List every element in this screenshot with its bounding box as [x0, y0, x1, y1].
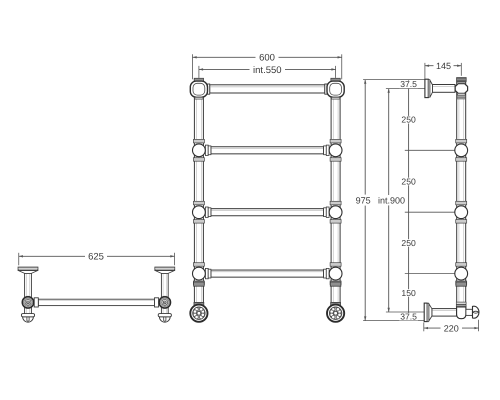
dimension 145 label	[434, 61, 454, 71]
side top wall flange	[425, 79, 433, 97]
dimension 600 line	[193, 56, 342, 58]
svg-text:37.5: 37.5	[400, 79, 417, 89]
plan right post	[161, 273, 168, 314]
side chain dimension line	[408, 80, 410, 321]
top-right corner joint cap	[331, 78, 340, 81]
chain label 250 b	[401, 178, 416, 186]
svg-text:250: 250	[401, 177, 416, 187]
dimension 145 line	[425, 65, 461, 67]
right valve handwheel	[327, 305, 344, 322]
dimension 600 extension lines	[193, 54, 342, 79]
rail 3 tube	[211, 209, 324, 216]
side post ball joint 2	[455, 201, 468, 223]
rail 4 tube	[211, 270, 324, 277]
band below top-right joint	[332, 97, 340, 99]
side post ball joint 3	[455, 263, 468, 285]
side chain tick rail3	[405, 211, 455, 213]
plan rail left collar	[34, 298, 38, 307]
side bottom wall flange	[424, 303, 432, 322]
dimension int.550 extension lines	[199, 66, 336, 78]
side chain tick rail4	[405, 273, 455, 275]
dimension int.550 label	[250, 64, 286, 75]
side chain tick 37.5 lower	[386, 88, 434, 90]
side collar below top ball	[457, 93, 466, 98]
left post ball joint rail4	[193, 263, 206, 285]
rail 3 right collar	[324, 207, 329, 217]
svg-text:int.550: int.550	[253, 65, 282, 76]
chain label 37.5 bottom	[399, 313, 418, 321]
chain label 150	[401, 289, 416, 297]
side post	[457, 82, 466, 306]
left valve handwheel	[190, 305, 207, 322]
side post lower dark band	[456, 282, 467, 286]
rail 2 left collar	[205, 145, 211, 155]
plan left foot	[21, 314, 34, 323]
svg-text:145: 145	[436, 61, 451, 71]
svg-text:150: 150	[401, 288, 416, 298]
plan right foot	[158, 314, 171, 323]
side valve stem stub	[466, 309, 473, 315]
side top finial cap	[457, 78, 467, 82]
dimension int.900 label	[378, 195, 406, 205]
right post ball joint rail4	[329, 263, 342, 285]
dimension int.550 line	[199, 68, 336, 70]
dimension 625 label	[85, 251, 107, 261]
side top ball	[455, 84, 467, 94]
plan left post	[25, 273, 32, 314]
dimension 625 line	[19, 255, 175, 257]
side bottom elbow	[457, 307, 466, 319]
svg-text:220: 220	[444, 323, 459, 333]
dimension 975 line	[364, 80, 366, 321]
left post ball joint rail2	[193, 139, 206, 161]
svg-text:250: 250	[401, 115, 416, 125]
rail 4 left collar	[205, 268, 211, 278]
left post wheel collar band	[194, 302, 204, 305]
chain label 250 c	[401, 239, 416, 247]
side chain tick 150 lower	[386, 311, 434, 313]
right post ball joint rail2	[329, 139, 342, 161]
chain label 250 a	[401, 116, 416, 124]
right post ball joint rail3	[329, 201, 342, 223]
rail 4 right collar	[324, 268, 329, 278]
top rail tube	[210, 85, 325, 93]
top-right corner joint octagon	[327, 81, 344, 97]
rail 2 tube	[211, 147, 324, 154]
plan left wall flange	[18, 267, 38, 273]
chain label 37.5 top	[399, 81, 418, 89]
right post wheel collar band	[331, 302, 341, 305]
side bottom collar bands	[456, 302, 466, 307]
dimension 220 label	[441, 323, 463, 333]
left post lower dark band	[194, 282, 205, 286]
top rail right collar ring	[325, 84, 327, 94]
svg-text:250: 250	[401, 238, 416, 248]
dimension 625 extension lines	[19, 253, 175, 265]
rail 2 right collar	[324, 145, 329, 155]
dimension 145 extension lines	[425, 63, 461, 79]
plan right wall flange	[155, 267, 175, 273]
left post	[194, 95, 203, 304]
plan left ball (top view)	[22, 297, 33, 308]
side bottom wall arm tube	[432, 309, 457, 317]
top rail left collar ring	[207, 84, 209, 94]
side wall arm tube (top)	[432, 85, 455, 93]
side chain tick bottom	[363, 320, 425, 322]
dimension 220 line	[424, 327, 479, 329]
rail 3 left collar	[205, 207, 211, 217]
svg-text:975: 975	[356, 195, 371, 205]
dimension 600 label	[256, 52, 279, 63]
side chain tick rail2	[405, 149, 455, 151]
band below top-left joint	[195, 97, 203, 99]
dimension int.900 line	[388, 89, 390, 312]
plan right ball (top view)	[159, 297, 170, 308]
plan rail tube	[38, 299, 154, 305]
svg-text:625: 625	[88, 252, 104, 263]
right post	[331, 95, 340, 304]
svg-text:37.5: 37.5	[400, 312, 417, 322]
dimension 975 label	[354, 195, 373, 206]
plan rail right collar	[155, 298, 159, 307]
svg-text:int.900: int.900	[378, 195, 405, 205]
left post ball joint rail3	[193, 201, 206, 223]
top-left corner joint octagon	[190, 81, 207, 97]
top-left corner joint cap	[194, 78, 203, 81]
dimension 220 extension lines	[424, 320, 479, 332]
side post ball joint 1	[455, 139, 468, 161]
side handwheel edge-on	[473, 306, 480, 318]
side chain tick top (37.5 upper)	[363, 79, 425, 81]
right post lower dark band	[330, 282, 341, 286]
svg-text:600: 600	[259, 53, 275, 64]
